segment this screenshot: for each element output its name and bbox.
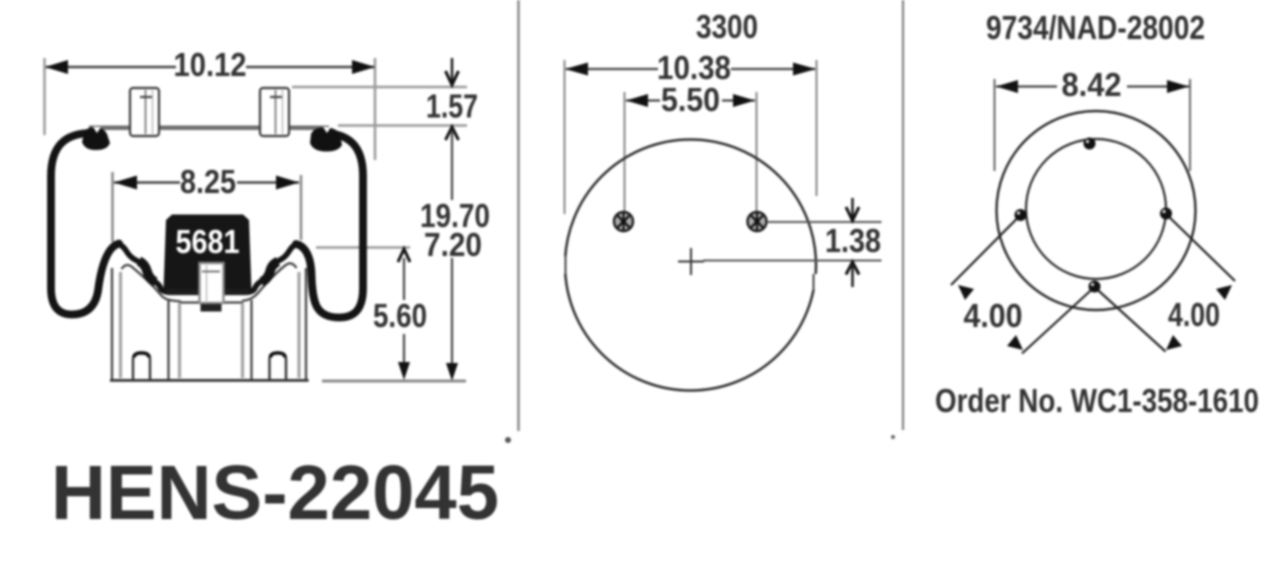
svg-text:4.00: 4.00 [1168,296,1220,333]
svg-text:1.38: 1.38 [825,222,881,259]
svg-text:1.57: 1.57 [426,88,478,125]
svg-text:8.42: 8.42 [1062,66,1122,103]
svg-text:4.00: 4.00 [964,297,1023,334]
svg-text:8.25: 8.25 [180,163,236,200]
svg-text:3300: 3300 [696,8,758,45]
svg-text:5681: 5681 [176,223,240,260]
svg-text:HENS-22045: HENS-22045 [51,450,499,536]
svg-text:9734/NAD-28002: 9734/NAD-28002 [986,9,1205,46]
svg-text:Order No. WC1-358-1610: Order No. WC1-358-1610 [935,382,1259,419]
svg-text:5.60: 5.60 [373,297,427,334]
svg-text:7.20: 7.20 [424,226,482,263]
svg-text:5.50: 5.50 [661,81,720,118]
svg-text:10.12: 10.12 [174,46,247,83]
